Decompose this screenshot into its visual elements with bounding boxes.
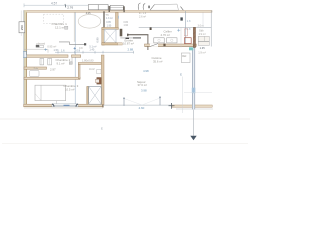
shaft box with X — [89, 86, 102, 104]
dimension line top-left — [24, 2, 88, 8]
wc labels — [106, 13, 113, 27]
svg-text:4.98: 4.98 — [143, 69, 149, 73]
top-right roof line — [139, 26, 212, 28]
svg-text:1.80x0.80: 1.80x0.80 — [82, 59, 94, 63]
svg-text:4.60: 4.60 — [139, 106, 145, 110]
bottom sliding window — [52, 104, 78, 107]
svg-text:1.40: 1.40 — [89, 48, 94, 51]
section line vertical top — [180, 11, 191, 45]
stair box bottom wall — [102, 43, 123, 45]
svg-text:0.80: 0.80 — [124, 22, 129, 24]
chambre3 bed — [35, 85, 66, 100]
long wall x102 lower — [101, 55, 104, 105]
dimension string mid — [55, 50, 134, 54]
teal tag on terrace line — [189, 47, 193, 50]
entree label — [123, 38, 134, 45]
svg-text:12.1 m²: 12.1 m² — [55, 26, 65, 30]
svg-text:37.6 m²: 37.6 m² — [138, 83, 148, 87]
svg-text:2.76: 2.76 — [67, 6, 73, 10]
dark door block on wall — [96, 78, 102, 85]
cuisine label — [152, 56, 163, 64]
page footer line — [0, 118, 250, 120]
window W1 top — [88, 5, 108, 10]
svg-text:10.87 m²: 10.87 m² — [123, 42, 134, 46]
chambre2 label — [56, 58, 73, 65]
svg-text:0.8: 0.8 — [77, 50, 81, 53]
svg-text:placard: placard — [37, 41, 46, 45]
svg-text:1.35: 1.35 — [200, 46, 206, 50]
jamb between windows — [109, 6, 110, 12]
hall wall — [24, 55, 81, 57]
svg-text:1.9 m²: 1.9 m² — [198, 51, 206, 55]
svg-text:E: E — [101, 127, 103, 131]
faint extension line left of wall — [20, 11, 22, 37]
svg-text:4.76 m²: 4.76 m² — [161, 33, 171, 37]
texts right of curls — [139, 12, 147, 18]
bottom wall right segment — [172, 105, 212, 107]
svg-text:0.90: 0.90 — [95, 37, 99, 43]
faint door trace V — [124, 99, 142, 106]
bottom wall right end tick — [169, 103, 175, 109]
stair box with X — [104, 29, 116, 42]
chambre1 label — [52, 22, 68, 30]
closet boxes chambre2 — [40, 58, 52, 65]
cellier label — [161, 29, 181, 37]
svg-text:35.6 m²: 35.6 m² — [153, 60, 163, 64]
sde fixture — [30, 71, 40, 77]
shaft left wall — [87, 86, 89, 104]
right edge thin vertical — [210, 10, 212, 46]
duct wall right — [116, 12, 119, 28]
kitchen L-wall horizontal — [127, 34, 148, 37]
svg-text:Réf.: Réf. — [182, 54, 187, 58]
faint extension line — [182, 77, 184, 114]
kitchen L-wall vertical — [147, 35, 149, 50]
stepped header line — [59, 42, 86, 46]
chambre3 label — [64, 84, 79, 92]
small box on wall — [97, 69, 101, 73]
open casement window top-right — [148, 4, 183, 10]
sde labels — [34, 66, 57, 73]
faint vertical at 203 — [202, 12, 204, 27]
counter line entree — [120, 37, 141, 39]
chambre1 dashed closet — [44, 14, 64, 23]
top wall — [24, 11, 212, 13]
bathroom top wall — [78, 63, 101, 65]
door jamb line chambre3 — [56, 101, 58, 104]
wall below chambre2 — [24, 67, 47, 69]
svg-text:4 m²: 4 m² — [89, 67, 95, 71]
svg-text:2.88: 2.88 — [128, 47, 134, 51]
blue section line center-left — [74, 12, 76, 104]
svg-text:4.57: 4.57 — [51, 2, 57, 6]
svg-text:1.3 m²: 1.3 m² — [106, 17, 113, 20]
placard text row — [36, 41, 57, 48]
bottom-left wall footing line — [24, 107, 103, 109]
svg-text:3.98: 3.98 — [141, 88, 147, 92]
chambre3 top wall — [24, 77, 80, 79]
blue plus mark left — [44, 48, 47, 51]
wall top of stair box — [102, 28, 119, 30]
closet front line — [24, 49, 48, 53]
svg-text:2.97: 2.97 — [50, 68, 56, 72]
left wall — [24, 10, 27, 106]
faint guide line right — [184, 91, 212, 93]
svg-text:0.95 m²: 0.95 m² — [47, 44, 56, 48]
left wall tag — [19, 22, 25, 33]
terrace double line vertical — [190, 48, 196, 141]
sejour label — [137, 80, 147, 87]
right column labels — [199, 29, 206, 50]
bathroom left wall — [78, 64, 80, 78]
bottom floor edge line center — [103, 104, 171, 106]
bottom wall left segment — [24, 104, 104, 107]
door swing curls — [138, 3, 145, 10]
right column fixtures — [198, 36, 209, 45]
washer boxes — [154, 38, 177, 43]
svg-text:2.6 m²: 2.6 m² — [139, 15, 146, 18]
bottom opening dimension — [123, 97, 160, 111]
chambre1 right partition — [73, 12, 75, 41]
jamb right of W2 — [124, 6, 125, 12]
svg-text:10.5 m²: 10.5 m² — [65, 87, 75, 91]
red fixture boxes near wall — [181, 28, 191, 48]
svg-text:9.1 m²: 9.1 m² — [57, 62, 65, 66]
hall text row — [54, 46, 97, 52]
svg-text:1.90: 1.90 — [124, 25, 129, 27]
svg-text:E: E — [180, 73, 182, 77]
door jamb line — [71, 57, 73, 64]
stairwell left wall — [102, 28, 105, 46]
window W2 top — [110, 5, 123, 10]
chambre1 rug ellipse — [78, 14, 101, 28]
wall stub below roof line — [150, 27, 152, 30]
window left wall — [23, 52, 26, 58]
bottom-left wall end cap — [102, 104, 103, 107]
svg-text:2.9 m²: 2.9 m² — [199, 33, 206, 36]
cellier bottom wall — [145, 44, 197, 47]
bottom footing line right — [176, 108, 213, 110]
dark wall bar right of stairwell — [120, 29, 123, 37]
duct left wall dark line — [103, 11, 105, 30]
hatched wall right of cellier — [193, 27, 195, 47]
svg-text:250: 250 — [20, 25, 24, 30]
svg-text:1.90: 1.90 — [107, 25, 112, 28]
svg-text:1.6: 1.6 — [61, 50, 65, 53]
fridge box — [181, 53, 190, 63]
svg-text:0.95: 0.95 — [106, 21, 111, 24]
svg-text:2.8: 2.8 — [187, 19, 191, 23]
